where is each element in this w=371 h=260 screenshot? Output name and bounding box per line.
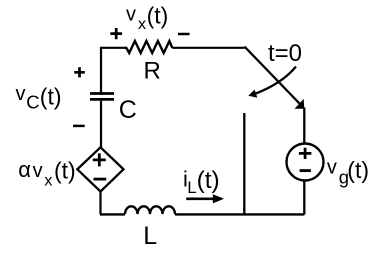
dependent source alpha*v_x(t) (diamond)	[77, 147, 123, 191]
minus mark (v_x polarity)	[178, 33, 190, 36]
svg-text:t=0: t=0	[268, 40, 302, 67]
switch blade arrowhead	[295, 99, 305, 109]
plus mark (v_x polarity)	[110, 28, 122, 39]
diamond bottom lead	[99, 192, 101, 215]
svg-text:x: x	[44, 173, 52, 190]
svg-text:x: x	[138, 16, 146, 33]
switch blade (diagonal)	[245, 47, 300, 104]
plus mark inside circle	[299, 148, 312, 159]
svg-text:L: L	[187, 178, 196, 197]
bottom wire right	[175, 213, 304, 215]
capacitor bottom lead	[100, 101, 102, 148]
svg-text:(t): (t)	[54, 158, 76, 184]
svg-text:v: v	[126, 4, 136, 26]
switch left contact vertical wire	[243, 113, 245, 214]
plus mark inside diamond	[93, 153, 106, 166]
v_g bottom lead	[303, 181, 305, 215]
minus mark inside circle	[300, 169, 311, 172]
switch arc arrowhead	[248, 90, 257, 98]
svg-text:C: C	[26, 91, 39, 112]
capacitor C plates	[90, 94, 114, 100]
svg-text:v: v	[33, 160, 43, 182]
minus mark inside diamond	[94, 178, 107, 181]
switch motion arc	[254, 67, 296, 95]
svg-text:(t): (t)	[40, 83, 62, 109]
svg-text:α: α	[18, 157, 31, 182]
wire: capacitor top lead and top wire corner to resistor	[101, 48, 124, 93]
resistor R	[124, 41, 173, 53]
inductor L	[125, 206, 175, 214]
svg-text:(t): (t)	[147, 2, 169, 28]
svg-text:C: C	[119, 96, 137, 124]
svg-text:(t): (t)	[197, 167, 220, 194]
svg-text:v: v	[327, 156, 337, 178]
svg-text:v: v	[16, 83, 26, 105]
svg-text:(t): (t)	[347, 157, 369, 183]
current arrow i_L	[186, 198, 214, 201]
svg-text:L: L	[143, 222, 157, 250]
svg-text:R: R	[144, 57, 161, 84]
bottom wire left	[100, 213, 125, 215]
minus mark (v_C polarity)	[73, 125, 85, 128]
wire from resistor to switch	[172, 47, 244, 49]
plus mark (v_C polarity)	[74, 67, 85, 77]
voltage source v_g (circle)	[287, 144, 324, 181]
v_g top lead	[303, 108, 305, 144]
